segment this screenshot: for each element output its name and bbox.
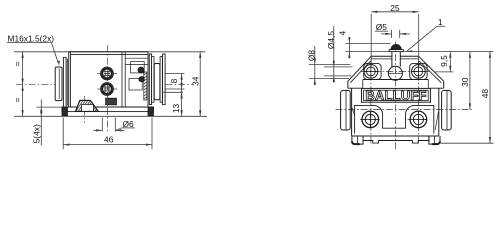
svg-text:5(4x): 5(4x)	[31, 124, 41, 143]
svg-text:48: 48	[480, 89, 490, 99]
svg-text:8: 8	[169, 78, 179, 83]
svg-text:BALLUFF: BALLUFF	[365, 88, 426, 103]
svg-text:Ø4,5: Ø4,5	[326, 31, 336, 49]
svg-text:Ø5: Ø5	[376, 22, 388, 32]
svg-text:4: 4	[338, 30, 348, 35]
svg-text:46: 46	[104, 134, 114, 144]
svg-text:1: 1	[438, 17, 443, 27]
svg-text:13: 13	[171, 104, 181, 114]
svg-text:34: 34	[190, 76, 200, 86]
svg-text:=: =	[12, 97, 22, 102]
svg-text:Ø6: Ø6	[123, 119, 135, 129]
svg-text:25: 25	[390, 3, 400, 13]
svg-text:30: 30	[460, 77, 470, 87]
svg-text:9,5: 9,5	[439, 55, 449, 67]
svg-text:=: =	[12, 61, 22, 66]
svg-text:M16x1.5(2x): M16x1.5(2x)	[8, 33, 55, 43]
